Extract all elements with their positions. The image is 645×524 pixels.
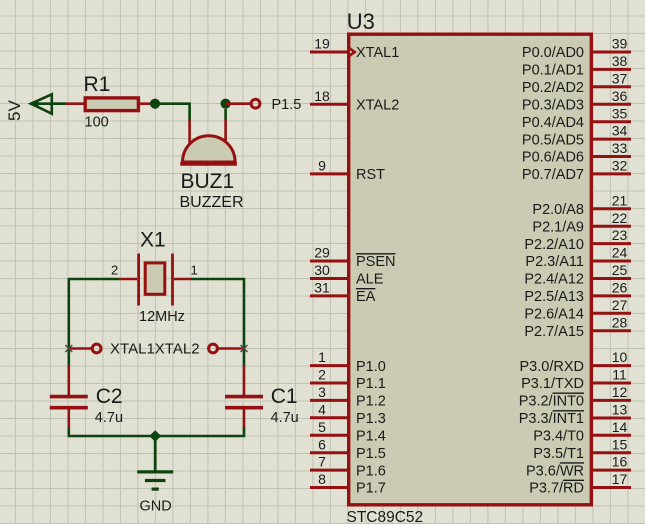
pin 2 (P1.1) left stub	[310, 382, 348, 385]
wire crystal pin1 to right rail	[191, 278, 244, 281]
wire right rail	[243, 278, 246, 366]
svg-text:P3.1/TXD: P3.1/TXD	[521, 376, 584, 392]
node A junction dot	[150, 99, 160, 109]
svg-text:P2.0/A8: P2.0/A8	[532, 202, 584, 218]
svg-text:36: 36	[612, 88, 628, 104]
svg-text:STC89C52: STC89C52	[347, 509, 424, 524]
svg-text:P1.1: P1.1	[356, 376, 386, 392]
svg-text:35: 35	[612, 105, 628, 121]
svg-text:P0.5/AD5: P0.5/AD5	[522, 132, 584, 148]
svg-text:16: 16	[612, 454, 628, 470]
pin 18 (XTAL2) left stub	[310, 103, 348, 106]
svg-text:29: 29	[314, 245, 330, 261]
pin-end cross left	[65, 345, 72, 352]
pin 22 (P2.1/A9) right stub	[593, 225, 632, 228]
svg-text:P3.5/T1: P3.5/T1	[533, 446, 584, 462]
svg-text:33: 33	[612, 140, 628, 156]
svg-text:P2.5/A13: P2.5/A13	[524, 289, 584, 305]
svg-text:4.7u: 4.7u	[271, 410, 299, 426]
svg-text:34: 34	[612, 123, 628, 139]
svg-text:5V: 5V	[5, 100, 24, 121]
svg-text:9: 9	[318, 158, 326, 174]
svg-text:P0.4/AD4: P0.4/AD4	[522, 115, 584, 131]
svg-text:27: 27	[612, 297, 628, 313]
terminal P1.5	[251, 99, 260, 108]
svg-text:P3.0/RXD: P3.0/RXD	[520, 359, 584, 375]
svg-text:1: 1	[191, 263, 198, 278]
pin 11 (P3.1/TXD) right stub	[593, 382, 632, 385]
svg-text:26: 26	[612, 280, 628, 296]
pin 10 (P3.0/RXD) right stub	[593, 364, 632, 367]
pin 12 (P3.2/INT0) right stub	[593, 399, 632, 402]
svg-text:2: 2	[318, 367, 326, 383]
pin 27 (P2.6/A14) right stub	[593, 312, 632, 315]
svg-text:12: 12	[612, 384, 628, 400]
svg-text:X1: X1	[140, 229, 166, 252]
pin 6 (P1.5) left stub	[310, 451, 348, 454]
svg-text:3: 3	[318, 384, 326, 400]
terminal XTAL2 left	[70, 344, 102, 353]
pin 34 (P0.5/AD5) right stub	[593, 138, 632, 141]
pin 21 (P2.0/A8) right stub	[593, 207, 632, 210]
svg-text:P3.6/WR: P3.6/WR	[526, 463, 584, 479]
svg-text:P0.0/AD0: P0.0/AD0	[522, 45, 584, 61]
svg-text:23: 23	[612, 227, 628, 243]
svg-text:P1.6: P1.6	[356, 463, 386, 479]
svg-text:P1.4: P1.4	[356, 429, 386, 445]
svg-text:12MHz: 12MHz	[139, 309, 185, 325]
svg-text:38: 38	[612, 53, 628, 69]
svg-text:P1.3: P1.3	[356, 411, 386, 427]
pin 17 (P3.7/RD) right stub	[593, 486, 632, 489]
svg-text:P3.2/INT0: P3.2/INT0	[519, 394, 584, 410]
svg-text:P0.6/AD6: P0.6/AD6	[522, 150, 584, 166]
svg-text:GND: GND	[140, 499, 172, 515]
svg-text:P3.3/INT1: P3.3/INT1	[519, 411, 584, 427]
pin 5 (P1.4) left stub	[310, 434, 348, 437]
svg-text:BUZZER: BUZZER	[180, 194, 244, 211]
svg-text:2: 2	[111, 263, 118, 278]
svg-text:P1.7: P1.7	[356, 481, 386, 497]
pin 4 (P1.3) left stub	[310, 416, 348, 419]
svg-text:24: 24	[612, 245, 628, 261]
svg-text:5: 5	[318, 419, 326, 435]
node B junction dot	[221, 99, 231, 109]
svg-text:P2.6/A14: P2.6/A14	[524, 307, 584, 323]
svg-text:P2.3/A11: P2.3/A11	[525, 254, 584, 270]
svg-text:P2.7/A15: P2.7/A15	[524, 324, 584, 340]
pin 30 (ALE) left stub	[310, 277, 348, 280]
pin 38 (P0.1/AD1) right stub	[593, 68, 632, 71]
svg-text:RST: RST	[356, 167, 385, 183]
wire left rail lower	[69, 427, 155, 437]
crystal X1	[119, 254, 192, 306]
buzzer BUZ1	[180, 109, 237, 164]
svg-text:XTAL1: XTAL1	[356, 45, 399, 61]
svg-text:P1.2: P1.2	[356, 394, 386, 410]
pin 32 (P0.7/AD7) right stub	[593, 172, 632, 175]
svg-text:19: 19	[314, 36, 330, 52]
svg-text:P1.0: P1.0	[356, 359, 386, 375]
svg-text:32: 32	[612, 158, 628, 174]
capacitor C2	[50, 365, 88, 428]
pin 33 (P0.6/AD6) right stub	[593, 155, 632, 158]
svg-text:P0.3/AD3: P0.3/AD3	[522, 98, 584, 114]
svg-text:25: 25	[612, 262, 628, 278]
svg-text:P2.4/A12: P2.4/A12	[524, 272, 584, 288]
svg-text:39: 39	[612, 36, 628, 52]
microcontroller U3 (STC89C52) body	[349, 34, 592, 505]
svg-text:P1.5: P1.5	[356, 446, 386, 462]
pin 37 (P0.2/AD2) right stub	[593, 85, 632, 88]
svg-text:R1: R1	[84, 73, 111, 96]
svg-text:6: 6	[318, 436, 326, 452]
pin 25 (P2.4/A12) right stub	[593, 277, 632, 280]
pin 35 (P0.4/AD4) right stub	[593, 120, 632, 123]
node GND junction dot	[149, 430, 161, 442]
pin 23 (P2.2/A10) right stub	[593, 242, 632, 245]
terminal XTAL1 right	[209, 344, 243, 353]
svg-text:4: 4	[318, 401, 326, 417]
pin 9 (RST) left stub	[310, 172, 348, 175]
clock marker XTAL1	[350, 47, 357, 57]
svg-text:EA: EA	[356, 289, 376, 305]
svg-text:XTAL2: XTAL2	[356, 98, 399, 114]
wire crystal pin2 to left rail	[69, 278, 119, 281]
svg-text:8: 8	[318, 471, 326, 487]
pin 13 (P3.3/INT1) right stub	[593, 417, 632, 420]
svg-text:17: 17	[612, 471, 628, 487]
svg-text:P3.4/T0: P3.4/T0	[533, 429, 584, 445]
pin 29 (PSEN) left stub	[310, 260, 348, 263]
resistor R1	[66, 98, 152, 111]
svg-text:P1.5: P1.5	[272, 97, 302, 113]
wire right rail lower	[155, 427, 244, 437]
svg-text:P0.7/AD7: P0.7/AD7	[522, 167, 584, 183]
wire 5V to R1	[52, 102, 67, 105]
svg-text:28: 28	[612, 314, 628, 330]
svg-text:15: 15	[612, 436, 628, 452]
svg-text:BUZ1: BUZ1	[181, 170, 235, 193]
pin 19 (XTAL1) left stub	[310, 51, 348, 54]
svg-text:21: 21	[612, 192, 628, 208]
svg-text:1: 1	[318, 349, 326, 365]
pin 8 (P1.7) left stub	[310, 486, 348, 489]
svg-text:37: 37	[612, 70, 628, 86]
svg-text:100: 100	[85, 115, 109, 131]
svg-text:C2: C2	[96, 385, 123, 408]
svg-text:XTAL1XTAL2: XTAL1XTAL2	[110, 341, 200, 358]
svg-text:18: 18	[314, 88, 330, 104]
pin 24 (P2.3/A11) right stub	[593, 260, 632, 263]
wire node B to terminal P1.5	[226, 102, 250, 105]
svg-text:P3.7/RD: P3.7/RD	[529, 481, 584, 497]
pin 36 (P0.3/AD3) right stub	[593, 103, 632, 106]
svg-text:PSEN: PSEN	[356, 254, 396, 270]
svg-text:14: 14	[612, 419, 628, 435]
pin 15 (P3.5/T1) right stub	[593, 451, 632, 454]
svg-text:10: 10	[612, 349, 628, 365]
svg-text:31: 31	[314, 280, 330, 296]
wire left rail	[68, 278, 71, 366]
svg-text:P2.1/A9: P2.1/A9	[532, 219, 584, 235]
svg-text:4.7u: 4.7u	[95, 410, 123, 426]
svg-text:22: 22	[612, 210, 628, 226]
svg-text:P0.2/AD2: P0.2/AD2	[522, 80, 584, 96]
pin-end cross right	[241, 345, 248, 352]
pin 14 (P3.4/T0) right stub	[593, 434, 632, 437]
ground	[137, 436, 173, 489]
svg-text:C1: C1	[271, 385, 298, 408]
svg-text:11: 11	[612, 367, 627, 383]
svg-text:ALE: ALE	[356, 272, 384, 288]
pin 31 (EA) left stub	[310, 294, 348, 297]
svg-text:U3: U3	[347, 9, 375, 34]
pin 26 (P2.5/A13) right stub	[593, 294, 632, 297]
wire node A to buzzer	[155, 104, 190, 121]
pin 39 (P0.0/AD0) right stub	[593, 51, 632, 54]
svg-text:30: 30	[314, 262, 330, 278]
svg-text:P2.2/A10: P2.2/A10	[524, 237, 584, 253]
power flag 5V	[5, 94, 66, 121]
pin 16 (P3.6/WR) right stub	[593, 469, 632, 472]
pin 3 (P1.2) left stub	[310, 399, 348, 402]
pin 1 (P1.0) left stub	[310, 364, 348, 367]
svg-text:P0.1/AD1: P0.1/AD1	[522, 63, 584, 79]
svg-text:7: 7	[318, 454, 326, 470]
pin 28 (P2.7/A15) right stub	[593, 329, 632, 332]
pin 7 (P1.6) left stub	[310, 469, 348, 472]
svg-text:13: 13	[612, 402, 628, 418]
capacitor C1	[225, 365, 263, 428]
